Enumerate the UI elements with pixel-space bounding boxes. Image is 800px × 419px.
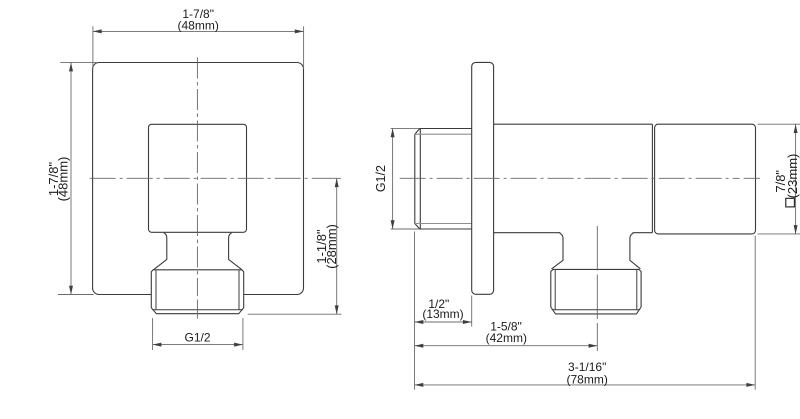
- svg-text:(13mm): (13mm): [422, 307, 463, 321]
- svg-text:G1/2: G1/2: [374, 165, 388, 192]
- svg-text:(48mm): (48mm): [55, 157, 70, 202]
- svg-text:(23mm): (23mm): [785, 154, 800, 199]
- svg-text:(78mm): (78mm): [567, 372, 608, 386]
- svg-text:G1/2: G1/2: [184, 331, 210, 345]
- svg-text:(42mm): (42mm): [486, 331, 527, 345]
- svg-text:(48mm): (48mm): [178, 18, 219, 32]
- svg-text:(28mm): (28mm): [324, 224, 339, 269]
